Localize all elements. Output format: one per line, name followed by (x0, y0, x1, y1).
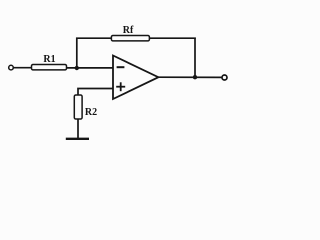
resistor Rf (111, 36, 149, 41)
output terminal node Vout (222, 75, 227, 80)
pin mark: non-inverting input (+) (116, 82, 125, 91)
wire: feedback right vertical (194, 38, 196, 78)
wire: R2 to ground (77, 119, 79, 140)
junction node B (output / feedback) (193, 75, 197, 79)
svg-text:R2: R2 (85, 107, 97, 118)
wire: feedback top rail left (76, 37, 112, 39)
wire: feedback top rail right (149, 37, 196, 39)
resistor R1 (32, 65, 67, 70)
wire: op-amp output to terminal (158, 76, 222, 78)
resistor R2 (74, 95, 82, 119)
op-amp U1 (113, 56, 158, 100)
svg-text:R1: R1 (43, 54, 55, 65)
pin mark: inverting input (-) (117, 66, 125, 68)
input terminal node Vin (9, 65, 14, 70)
wire: R1 to op-amp inverting input (67, 67, 114, 69)
wire: feedback left vertical (76, 38, 78, 69)
wire: input terminal to R1 (13, 67, 32, 69)
junction node A (R1 / feedback) (75, 66, 79, 70)
ground (66, 138, 89, 140)
svg-text:Rf: Rf (123, 25, 134, 36)
wire: non-inverting input to R2 (78, 89, 114, 96)
